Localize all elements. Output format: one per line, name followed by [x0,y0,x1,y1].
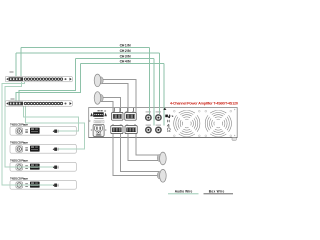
wire mixer2 input from CD player 1 [23,106,78,131]
CD player 2 [10,144,76,153]
amp XLR input CH1 [146,111,151,120]
svg-text:CH 4 IN: CH 4 IN [120,60,132,64]
amp XLR input CH3 [146,125,151,133]
amp XLR input CH2 [156,111,161,120]
amp power terminal strip [89,110,107,122]
speaker SP4 [157,169,166,182]
wire CH1 vertical to amp input 1 [148,48,150,115]
wire mixer2 input from CD player 2 [26,106,85,149]
wire CH2 vertical to amp input 2 [158,53,160,114]
wire speaker1 plus to amp block [101,80,136,113]
wire mixer2 output B to CH4 [16,64,81,101]
svg-text:Audio Wire: Audio Wire [175,189,193,193]
svg-text:T-6221 CD Player: T-6221 CD Player [10,177,29,181]
speaker SP2 [94,92,103,105]
wire amp block to speaker4 minus [113,134,160,176]
amp speaker terminal block BR [125,124,137,133]
wire speaker2 minus to amp block [101,101,113,112]
wire amp block to speaker4 plus [121,134,160,172]
wire overlay inside CD player 1 [59,130,79,132]
amp corner screw marks [234,109,235,136]
wire mixer1 bottom to CD player 3 [5,82,54,168]
svg-text:Box Wire: Box Wire [209,189,225,193]
amp speaker terminal block TL [112,108,123,120]
wire overlay inside CD player 3 [5,166,53,168]
mixer M1 label [10,71,14,73]
mixer M1 body [5,76,72,81]
wire mixer1 bottom to CD player 4 [2,82,54,186]
amp speaker terminal block BL [111,124,123,133]
wire CH4 horizontal [81,63,164,65]
mixer M2 label [10,98,14,100]
amp XLR input CH4 [156,125,161,133]
CD player 4 [10,180,76,189]
amp mode icon [163,108,171,132]
speaker SP1 [94,74,103,87]
wire CH3 horizontal [76,57,154,59]
wire CH2 horizontal [16,52,159,54]
amp speaker terminal block TR [125,108,136,120]
amp bottom-right jack [232,138,236,141]
wire speaker2 plus to amp block [101,98,121,113]
amp fan 1 [172,110,200,136]
CD player 3 [10,162,76,171]
mixer M2 body [5,101,72,106]
wire mixer1 output A up to CH1 [20,48,22,77]
wire amp block to speaker3 plus [136,134,160,156]
CD player 1 [10,126,76,135]
amplifier U1 chassis [89,108,238,138]
wire CH1 horizontal [21,47,149,49]
wire CH4 vertical to amp input 4 [163,64,165,126]
wire amp block to speaker3 minus [128,134,159,161]
svg-text:CH 1 IN: CH 1 IN [120,44,132,48]
wire speaker1 minus to amp block [101,83,128,112]
svg-text:T-6221 CD Player: T-6221 CD Player [10,123,29,127]
svg-text:CH 2 IN: CH 2 IN [120,49,132,53]
wire CH3 vertical to amp input 3 [153,58,155,125]
speaker SP3 [157,152,166,165]
wire mixer2 output A to CH3 [19,58,76,101]
wire overlay inside CD player 2 [59,148,85,150]
svg-text:CH 3 IN: CH 3 IN [120,54,132,58]
svg-text:4-Channel Power Amplifier T-4: 4-Channel Power Amplifier T-4S60/T-4S120 [170,101,238,105]
amp voltage label plate [94,120,104,123]
wire overlay inside CD player 4 [2,184,53,186]
svg-text:T-6221 CD Player: T-6221 CD Player [10,141,29,145]
amp fan 2 [205,110,232,136]
amp IEC power inlet [91,110,107,136]
wire mixer1 output B up to CH2 [15,53,17,76]
svg-text:T-6221 CD Player: T-6221 CD Player [10,159,29,163]
